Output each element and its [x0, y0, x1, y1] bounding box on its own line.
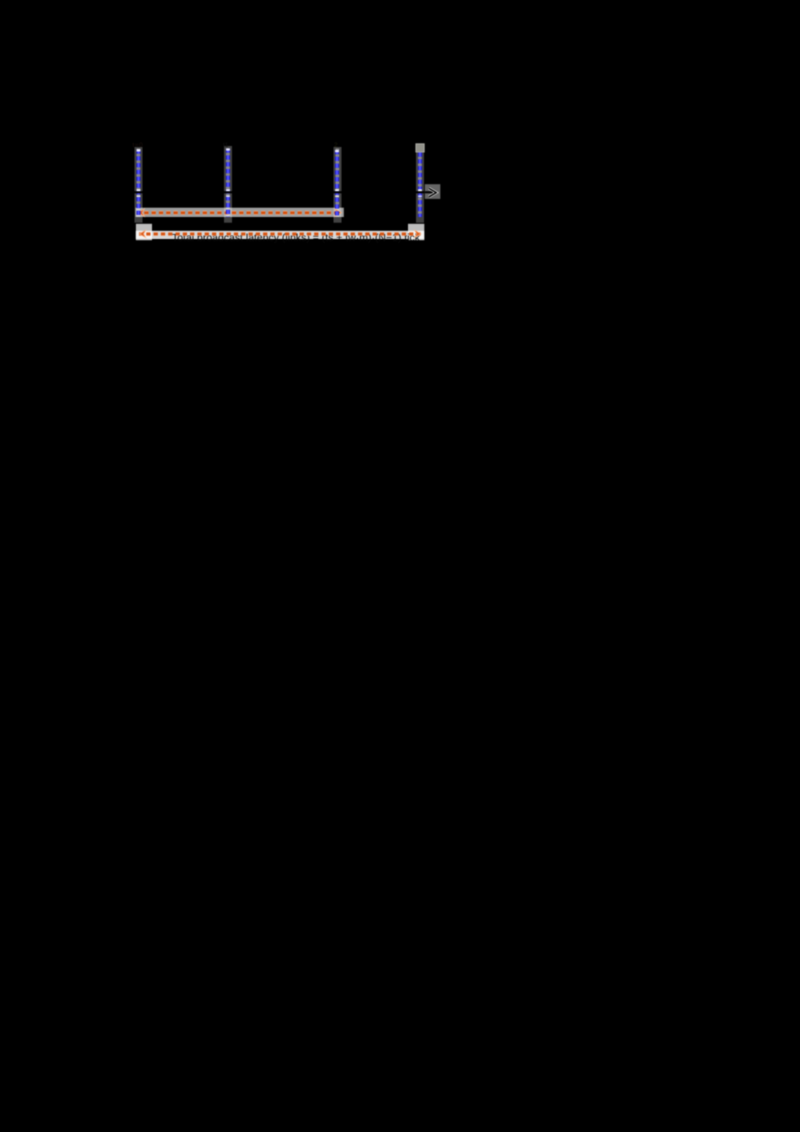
- arrow A1 right arrowhead: [335, 209, 342, 217]
- label above L4 (boxed): [416, 144, 424, 152]
- arrow A1 casing band (upper orange arrow, line1 to line3): [136, 208, 344, 217]
- timeline L4 casing: [416, 152, 424, 223]
- svg-text:t1: t1: [223, 142, 229, 149]
- svg-text:2: 2: [334, 142, 338, 149]
- arrow A2 orange dashed shaft: [139, 232, 421, 236]
- svg-text:t=0: t=0: [133, 142, 144, 149]
- timeline L2 casing: [224, 146, 232, 223]
- arrow A2 casing band (long bottom arrow): [136, 231, 424, 239]
- arrow A2 right end box: [408, 224, 424, 240]
- arrow A1 left arrowhead: [138, 209, 145, 217]
- axis crossing white flank dashes on L3: [335, 189, 339, 197]
- axis arrowhead (black chevron with white outline): [429, 188, 436, 196]
- arrow A2 left end box: [136, 224, 152, 240]
- arrow A2 left arrowhead: [139, 230, 146, 238]
- axis arrow gray box: [425, 184, 441, 199]
- timeline L4 blue dashed line: [418, 153, 422, 218]
- timeline L2 blue dashed line: [226, 149, 230, 217]
- arrow A2 right arrowhead: [415, 230, 422, 238]
- axis black shaft into box: [425, 191, 434, 193]
- axis crossing white flank dashes on L1: [137, 189, 141, 197]
- timeline L3 blue dashed line: [335, 150, 339, 217]
- axis crossing white flank dashes on L2: [226, 189, 230, 197]
- arrow A1 orange dashed shaft: [137, 211, 341, 215]
- timeline L1 blue dashed line: [136, 150, 140, 218]
- axis crossing white flank dashes on L4: [418, 189, 422, 197]
- timeline first-dash white highlights: [137, 149, 339, 153]
- timeline L1 casing: [135, 147, 143, 223]
- time axis black shaft (erases lines, invisible on black): [134, 191, 430, 193]
- timeline L3 casing: [334, 147, 342, 223]
